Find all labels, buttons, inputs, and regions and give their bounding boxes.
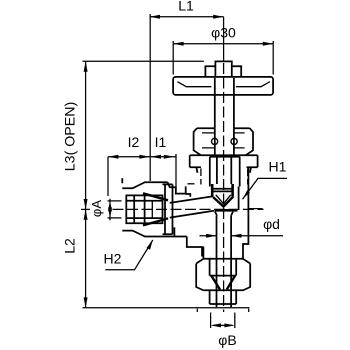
side passage lower slant xyxy=(170,211,215,218)
extension line phi30 left xyxy=(172,41,174,75)
svg-text:L3( OPEN): L3( OPEN) xyxy=(63,102,79,171)
nut front flange line xyxy=(133,195,135,223)
svg-text:L1: L1 xyxy=(178,0,194,14)
nut inner division xyxy=(151,201,153,218)
packing o-ring right xyxy=(231,138,237,144)
phid dimension right tail xyxy=(231,235,283,237)
side boss top profile xyxy=(122,178,167,188)
phiA extension lines (tube walls extended) xyxy=(108,200,122,202)
phid left arrow xyxy=(206,234,216,238)
bottom extension line (L2 datum) xyxy=(83,307,250,309)
needle spindle right thick wall xyxy=(231,184,234,196)
extension line for L1 left end xyxy=(149,14,151,181)
H1 label xyxy=(269,159,287,175)
I1 right arrow xyxy=(164,155,174,159)
phid label xyxy=(263,216,280,232)
needle spindle left thick wall xyxy=(211,184,214,197)
bottom ferrule slant right xyxy=(227,276,235,290)
bottom nut hex left arc xyxy=(196,264,204,291)
bottom nut lower block xyxy=(210,290,237,304)
phiA dimension vertical line xyxy=(109,199,111,221)
svg-text:φd: φd xyxy=(263,216,280,232)
L3 bottom arrow at port CL xyxy=(84,199,88,209)
dimension L1 right arrow xyxy=(213,15,223,19)
H2 leader line xyxy=(105,240,153,270)
phiB extension lines xyxy=(211,313,235,329)
L3 (OPEN) label xyxy=(63,102,79,171)
vertical centerline of stem xyxy=(223,17,225,62)
H2 label xyxy=(104,251,122,267)
dimension L1 label xyxy=(178,0,194,14)
needle cone outer xyxy=(213,196,233,206)
stem top square xyxy=(215,61,231,77)
dimension phi30 label xyxy=(211,25,236,41)
dimension I2/I1 line xyxy=(108,156,176,158)
dimension phi30 line xyxy=(173,43,273,45)
stem inside bonnet xyxy=(217,157,231,184)
handle bar xyxy=(173,77,273,95)
phiB right arrow xyxy=(224,323,234,327)
packing bore shelf xyxy=(202,133,245,148)
bonnet thread hidden dashes right xyxy=(247,169,249,185)
svg-text:L2: L2 xyxy=(62,238,78,254)
extension line I1 right xyxy=(175,154,177,191)
bottom boss of body xyxy=(203,247,243,259)
dimension I2 label xyxy=(128,134,140,150)
I2 left arrow xyxy=(108,155,118,159)
svg-text:I1: I1 xyxy=(155,134,167,150)
phid right arrow xyxy=(231,234,241,238)
I2 right arrow xyxy=(139,155,149,159)
bottom boss chamfer to hex arcs xyxy=(196,259,250,264)
seat thick line xyxy=(215,209,238,212)
svg-text:φB: φB xyxy=(218,332,236,348)
svg-text:H2: H2 xyxy=(104,251,122,267)
handle bar right chamfer mark xyxy=(236,82,270,87)
tube walls through nut xyxy=(126,201,162,218)
phid dimension left tail xyxy=(200,235,217,237)
phiB label xyxy=(218,332,236,348)
hidden dash body top face xyxy=(188,183,195,185)
H2 arrowhead xyxy=(147,240,153,250)
body right edge xyxy=(243,167,248,258)
bonnet thread hidden dashes left xyxy=(200,169,202,185)
H1 leader line xyxy=(243,178,288,199)
bottom nut hex right arc xyxy=(243,264,251,291)
dimension I1 label xyxy=(155,134,167,150)
bottom nut lower shoulder xyxy=(204,289,244,291)
body top-left staircase xyxy=(168,182,191,197)
I1 left arrow xyxy=(151,155,161,159)
hidden stubs below datum line xyxy=(197,309,248,312)
handle bar left chamfer mark xyxy=(177,82,211,87)
extension line I2 left xyxy=(107,157,109,196)
phi30 right arrow xyxy=(263,42,273,46)
bottom ferrule slant left xyxy=(212,276,221,290)
phiB dimension line xyxy=(213,324,232,326)
extension line phi30 right xyxy=(272,41,274,75)
bonnet barrel left wall xyxy=(209,157,211,187)
spindle shoulder lines xyxy=(213,189,231,192)
L3 top arrow xyxy=(84,61,88,71)
dimension line L3/L2 vertical xyxy=(85,61,87,307)
svg-text:φA: φA xyxy=(89,200,104,217)
body bottom-left staircase xyxy=(174,227,203,255)
side boss bottom profile xyxy=(122,231,187,237)
packing gland nut xyxy=(194,128,253,155)
seat trapezoid xyxy=(215,212,233,216)
phiA bottom arrow xyxy=(108,208,112,218)
extension line handle top (for L3) xyxy=(83,60,204,62)
stem between bar and packing nut xyxy=(214,78,216,128)
packing o-ring left xyxy=(212,138,218,144)
L2 top arrow at port CL xyxy=(84,209,88,219)
nut mid division xyxy=(144,195,146,223)
bottom nut top block xyxy=(210,259,237,276)
dimension L1 line xyxy=(150,16,224,18)
bonnet barrel shoulder xyxy=(210,156,240,158)
bonnet hex xyxy=(190,155,258,173)
side passage upper slant xyxy=(170,196,213,203)
H1 arrowhead xyxy=(243,190,250,199)
port centerline tick at L3/L2 junction xyxy=(81,208,90,210)
ferrule cone slant top xyxy=(143,193,168,200)
phiB left arrow xyxy=(211,323,221,327)
tube nut on side port xyxy=(126,195,162,223)
phiA label xyxy=(89,200,104,217)
needle cone inner xyxy=(216,195,231,204)
svg-text:I2: I2 xyxy=(128,134,140,150)
phi30 left arrow xyxy=(173,42,183,46)
dimension L1 left arrow xyxy=(150,15,160,19)
L2 label xyxy=(62,238,78,254)
stem top cap flange xyxy=(205,66,241,77)
port centerline tick right of body xyxy=(248,208,262,210)
hex band behind nut xyxy=(163,184,173,234)
phiA top arrow xyxy=(108,201,112,211)
bonnet barrel right wall xyxy=(239,157,240,209)
ferrule cone slant bottom xyxy=(143,218,168,225)
side port horizontal centerline xyxy=(113,208,264,210)
stem through packing xyxy=(215,128,234,157)
svg-text:H1: H1 xyxy=(269,159,287,175)
outlet passage walls xyxy=(217,216,232,247)
tube through bottom nut xyxy=(217,247,232,308)
L2 bottom arrow xyxy=(84,297,88,307)
